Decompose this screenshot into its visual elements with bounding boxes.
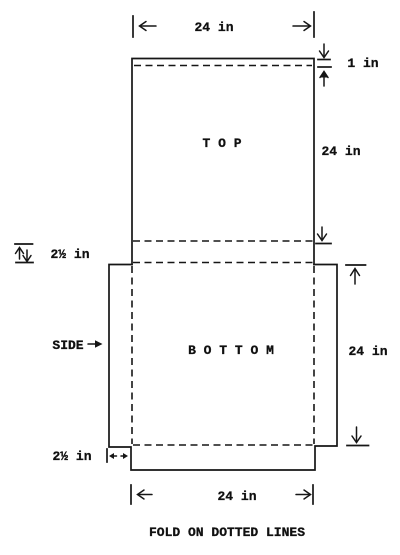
TOP lower fold dashed line: [133, 240, 313, 242]
TOP height down arrow: [318, 227, 327, 241]
BOTTOM height up arrow: [351, 269, 360, 285]
TOP panel outline: [132, 59, 314, 265]
svg-text:24 in: 24 in: [217, 489, 256, 504]
BOTTOM left fold dashed line: [131, 266, 133, 444]
BOTTOM outer outline: [109, 265, 337, 471]
top dimension left tick: [132, 16, 134, 37]
svg-text:SIDE: SIDE: [52, 338, 83, 353]
top dimension right tick: [313, 12, 315, 37]
bottom dimension right arrow: [296, 490, 311, 499]
TOP height end tick: [316, 243, 331, 245]
BOTTOM height down arrow: [352, 427, 361, 443]
1 in up arrow: [320, 72, 328, 87]
svg-text:2½ in: 2½ in: [52, 449, 91, 464]
bottom dimension left arrow: [138, 490, 153, 499]
SIDE arrow: [88, 340, 103, 348]
svg-text:24 in: 24 in: [348, 344, 387, 359]
svg-text:24 in: 24 in: [194, 20, 233, 35]
top dimension right arrow: [293, 22, 311, 31]
BOTTOM bottom fold dashed line: [133, 444, 313, 446]
2.5 in down arrow: [23, 250, 31, 262]
flap width left tick: [106, 449, 108, 462]
TOP upper fold dashed line: [134, 65, 312, 67]
2.5 in up arrow: [16, 248, 24, 260]
1 in lower tick: [318, 66, 331, 68]
BOTTOM height top tick: [346, 264, 366, 266]
svg-text:24 in: 24 in: [321, 144, 360, 159]
flap width right arrow: [121, 453, 128, 459]
2.5 in upper tick: [15, 243, 33, 245]
flap width left arrow: [109, 453, 117, 459]
svg-text:1 in: 1 in: [347, 56, 378, 71]
top dimension left arrow: [140, 22, 157, 31]
1 in upper tick: [318, 59, 330, 61]
svg-text:B O T T O M: B O T T O M: [188, 343, 274, 358]
svg-text:FOLD ON DOTTED LINES: FOLD ON DOTTED LINES: [149, 525, 305, 540]
1 in down arrow: [320, 44, 329, 58]
svg-text:2½ in: 2½ in: [50, 247, 89, 262]
bottom dimension right tick: [312, 485, 314, 504]
bottom dimension left tick: [130, 485, 132, 504]
flap fold dashed line: [133, 262, 313, 264]
svg-text:T O P: T O P: [202, 136, 241, 151]
BOTTOM right fold dashed line: [313, 266, 315, 444]
2.5 in lower tick: [16, 262, 33, 264]
BOTTOM height bottom tick: [347, 445, 369, 447]
